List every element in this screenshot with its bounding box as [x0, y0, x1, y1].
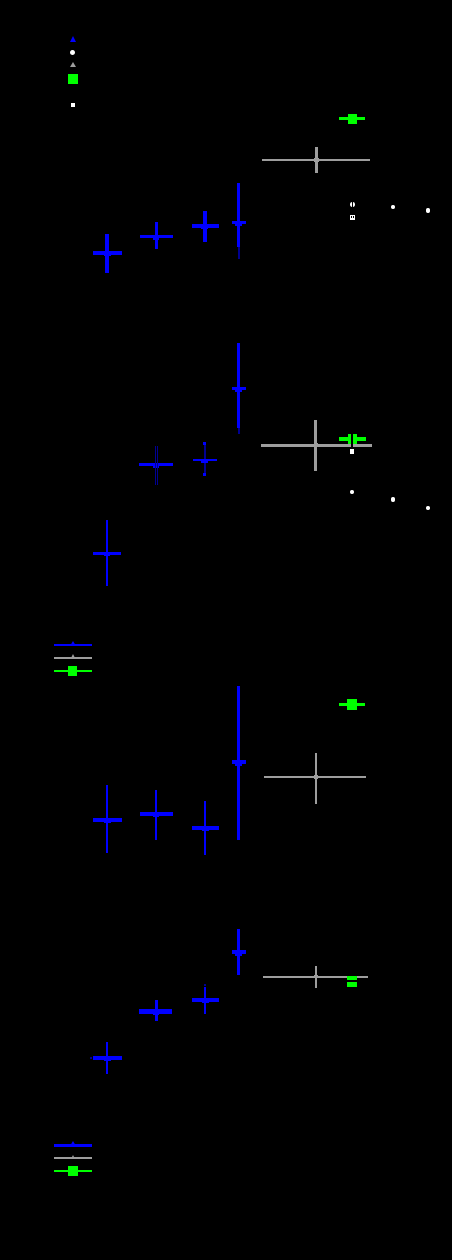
blue cross A2 vertical	[155, 222, 158, 249]
blue cross C3 horizontal	[192, 826, 219, 830]
blue cross B1 horizontal	[93, 552, 121, 556]
legend C: green square	[68, 666, 78, 676]
blue cross C1 vertical	[106, 785, 108, 853]
blue cross D2 vertical	[204, 987, 207, 1014]
gray cross C horizontal	[264, 776, 366, 779]
blue cross A1 marker	[104, 252, 111, 256]
black stripe over green/gray B	[351, 432, 353, 449]
legend A: blue triangle marker	[70, 36, 76, 42]
gray cross A: vertical bar	[315, 147, 318, 173]
white dot B3	[426, 506, 430, 510]
legend A: white circle marker	[70, 50, 75, 55]
blue cross D3 marker	[104, 1056, 111, 1061]
blue cross C3 vertical	[204, 801, 207, 855]
white crossed-square glyph A	[350, 215, 355, 220]
legend D: blue triangle	[70, 1141, 76, 1146]
blue cross D1 marker	[153, 1010, 160, 1015]
blue tall bar B horizontal	[232, 387, 246, 390]
green point B horizontal bar	[339, 437, 366, 441]
blue cross C3 marker	[202, 827, 209, 832]
legend D: gray triangle	[71, 1155, 75, 1159]
legend D: green square	[68, 1166, 78, 1176]
blue tall bar C marker	[235, 762, 242, 767]
legend D: green line	[54, 1170, 92, 1173]
green point B square marker	[348, 434, 357, 444]
white dot B1	[350, 490, 354, 494]
blue cross D3 horizontal	[93, 1056, 122, 1061]
blue cross B2 marker	[153, 463, 160, 467]
legend A: gray triangle marker	[70, 62, 76, 67]
blue cross A3 marker	[201, 225, 208, 229]
gray cross D center marker	[314, 975, 318, 978]
blue cross A3 horizontal	[192, 224, 219, 228]
green point A: square marker	[348, 114, 357, 125]
blue cross C2 marker	[153, 813, 160, 818]
gray cross C vertical	[315, 753, 317, 804]
gray cross C center marker	[314, 775, 319, 779]
white dot B2	[391, 497, 395, 501]
blue cross B1 vertical	[106, 520, 108, 586]
blue tall bar D marker	[235, 951, 242, 956]
legend A: green square marker	[68, 74, 78, 85]
gray cross B vertical	[314, 420, 317, 471]
green point A: horizontal error bar	[339, 117, 366, 120]
blue cross A1 horizontal	[93, 251, 122, 255]
blue cross D1 vertical	[155, 1000, 158, 1021]
legend C: blue line	[54, 644, 92, 646]
blue cross C1 marker	[104, 819, 111, 823]
gray cross D horizontal	[263, 976, 368, 979]
blue cross A4 tall vertical	[237, 183, 240, 247]
blue cross B2 dark vertical edge left	[155, 446, 156, 485]
white dot A2	[426, 208, 430, 212]
legend A: white small square marker	[71, 103, 75, 107]
blue cross A3 vertical	[203, 211, 206, 242]
gray cross A: center marker	[314, 158, 319, 162]
gray cross B center marker	[314, 443, 319, 447]
gray cross D vertical	[315, 966, 317, 989]
white open-circle glyph A (split by black stripe)	[350, 202, 355, 207]
blue cross D2 horizontal	[192, 998, 219, 1003]
blue cross D2 marker	[202, 998, 209, 1003]
legend D: gray line	[54, 1157, 92, 1159]
blue cross C1 horizontal	[93, 818, 122, 821]
blue tall bar C horizontal	[232, 760, 246, 764]
blue cross B2 horizontal	[139, 463, 174, 466]
legend C: gray line	[54, 657, 92, 659]
blue cross B3 bottom cap	[203, 473, 206, 476]
blue cross A2 marker	[153, 235, 160, 239]
blue cross B1 marker	[104, 552, 111, 556]
blue cross D2 dim tip	[204, 984, 206, 986]
gray cross A: horizontal bar	[262, 159, 370, 162]
blue tall bar C vertical	[237, 686, 240, 840]
white small square B	[350, 449, 354, 454]
blue cross D3 vertical	[106, 1042, 108, 1074]
gray cross B horizontal	[261, 444, 372, 447]
blue tall bar D vertical	[237, 929, 240, 975]
blue cross B3 horizontal	[193, 459, 217, 462]
blue cross A4 marker	[235, 221, 242, 226]
blue tall bar D horizontal	[232, 950, 247, 954]
blue cross B3 marker	[201, 460, 209, 462]
green point D square (split by black stripe)	[347, 976, 357, 987]
black stripe over green D	[347, 980, 359, 982]
blue tall bar B marker	[235, 387, 242, 392]
blue cross D1 horizontal	[139, 1009, 172, 1013]
blue cross A2 horizontal	[140, 235, 173, 238]
legend C: green line	[54, 670, 92, 672]
green point C horizontal bar	[339, 703, 365, 706]
blue cross D3 dim left dash	[90, 1057, 92, 1059]
blue tall bar B vertical	[237, 343, 240, 428]
legend C: gray triangle	[71, 654, 75, 658]
blue cross C2 horizontal	[140, 812, 173, 816]
blue cross A1 vertical	[105, 234, 108, 273]
legend D: blue line	[54, 1144, 92, 1147]
blue cross B2 dark vertical edge right	[157, 446, 158, 485]
blue tall bar B dim tail	[238, 428, 240, 434]
blue cross A4 horizontal	[232, 221, 246, 225]
blue cross B3 top cap	[203, 442, 206, 445]
blue cross A4 dim tail	[238, 247, 240, 260]
blue cross C2 vertical	[155, 790, 158, 840]
blue cross B3 dim vertical	[204, 445, 205, 474]
white dot A1	[391, 205, 396, 210]
legend C: blue triangle	[70, 641, 76, 646]
green point C square marker	[347, 699, 357, 710]
